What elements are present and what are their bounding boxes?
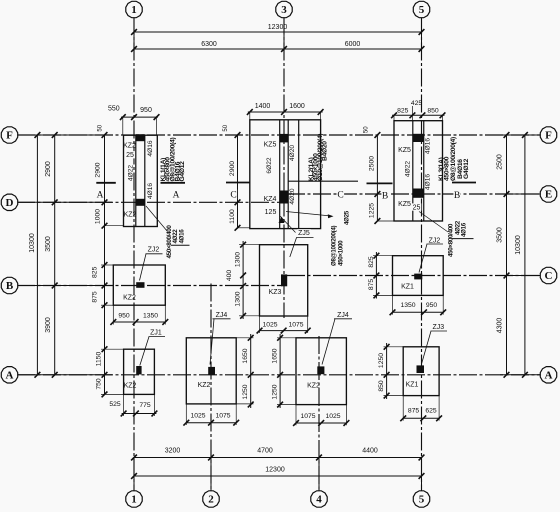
dimension 1650/1250 right of footing 2 — [250, 334, 252, 408]
grid line B (horizontal axis B) — [17, 285, 282, 287]
grid line E (horizontal axis E) — [287, 193, 541, 195]
section mark B right — [452, 182, 476, 184]
svg-text:2900: 2900 — [45, 161, 52, 177]
svg-text:1400: 1400 — [255, 103, 271, 110]
svg-text:KZ2: KZ2 — [124, 382, 137, 389]
dimension chain 2900/1000/825/875/1150/750 near grid 1 — [104, 135, 106, 394]
svg-text:1100: 1100 — [229, 209, 236, 224]
axis bubble C right — [540, 267, 556, 283]
axis bubble A right — [540, 367, 556, 383]
svg-text:550: 550 — [108, 105, 120, 112]
svg-text:950: 950 — [140, 107, 152, 114]
dimension 1250/850 left of footing A5 — [386, 343, 388, 399]
axis bubble E right — [540, 186, 556, 202]
footing note ZJ4 at 2 — [215, 311, 229, 318]
svg-text:F: F — [545, 130, 552, 142]
dimension 1025/1075 below footing 3 — [260, 330, 308, 332]
svg-text:ZJ2: ZJ2 — [429, 237, 441, 244]
svg-text:10300: 10300 — [29, 233, 36, 253]
column KZ2 in footing B x 1 (black) — [136, 282, 144, 288]
arrow down at KZ4 — [279, 217, 285, 224]
svg-text:2900: 2900 — [94, 162, 101, 177]
svg-text:50: 50 — [364, 126, 370, 133]
dimension 1300/400/1300 left of footing 3 — [242, 241, 244, 319]
svg-text:B: B — [6, 280, 14, 292]
svg-text:A: A — [97, 191, 104, 201]
svg-text:1600: 1600 — [289, 103, 305, 110]
svg-text:1150: 1150 — [95, 351, 102, 366]
svg-text:2500: 2500 — [369, 156, 376, 171]
svg-text:KZ2: KZ2 — [307, 383, 320, 390]
dimension 3200 / 4700 / 4400 bottom — [134, 457, 422, 459]
label 25 offset right — [412, 203, 422, 210]
dimension 950/1350 below footing B1 — [113, 321, 165, 323]
dimension 1025/1075 below footing 2 — [186, 422, 236, 424]
svg-text:950: 950 — [118, 313, 130, 320]
column KZ5 at F x 3 (black section) — [280, 134, 289, 143]
svg-text:50: 50 — [223, 124, 229, 131]
svg-text:525: 525 — [109, 401, 121, 408]
grid line 5 (vertical axis 5) — [421, 17, 423, 492]
svg-text:KZ1: KZ1 — [401, 284, 414, 291]
svg-text:4Ø16: 4Ø16 — [147, 140, 154, 156]
dimension 525/775 below footing A1 — [122, 413, 157, 415]
svg-text:6000: 6000 — [345, 41, 361, 48]
grid line 4 (vertical axis 4) — [318, 336, 320, 492]
svg-text:450×1000: 450×1000 — [337, 240, 344, 266]
svg-text:D: D — [6, 197, 14, 209]
grid line D (horizontal axis D) — [17, 201, 281, 203]
svg-text:25: 25 — [126, 152, 134, 159]
dimension chain 2900/1100 near wall 3 — [237, 135, 239, 229]
column KZ2 at F x 1 (black section) — [136, 134, 145, 141]
svg-text:3900: 3900 — [45, 317, 52, 333]
dimension chain 2500/3500/4300 right — [506, 135, 508, 375]
column KZ1 in footing A5 (black) — [417, 365, 425, 373]
svg-text:25: 25 — [413, 204, 421, 211]
dimension 1400/1600 above wall 3 — [248, 111, 323, 113]
footing outline ZJ5 at B/C x 3 — [260, 245, 308, 316]
column KZ3 in footing B/C x 3 (black) — [281, 274, 287, 286]
label 125 offset — [264, 208, 278, 215]
svg-text:1300: 1300 — [235, 291, 242, 306]
svg-text:750: 750 — [95, 378, 102, 390]
dimension 550/950 above wall 1 — [121, 116, 158, 118]
svg-text:4300: 4300 — [496, 318, 503, 334]
svg-text:1: 1 — [131, 4, 137, 16]
svg-text:KZ2: KZ2 — [123, 143, 136, 150]
svg-text:6300: 6300 — [201, 41, 217, 48]
axis bubble B left — [1, 277, 17, 293]
section mark A left — [96, 182, 116, 184]
svg-text:4Ø16: 4Ø16 — [179, 229, 186, 244]
dimension 12300 bottom overall — [134, 475, 422, 477]
svg-text:4Ø16: 4Ø16 — [425, 138, 432, 154]
svg-text:12300: 12300 — [268, 24, 288, 31]
svg-text:5: 5 — [419, 494, 425, 506]
footing outline ZJ1 at A x 1 — [124, 349, 155, 394]
dimension 1075/1025 below footing 4 — [296, 422, 346, 424]
svg-text:KZ2: KZ2 — [124, 211, 137, 218]
footing outline ZJ4 at A x 2 — [186, 338, 236, 404]
dimension 825/425/850 above wall 5 — [392, 114, 445, 116]
svg-text:C: C — [337, 191, 343, 201]
column KZ2 in footing A x 1 (black) — [136, 366, 141, 374]
svg-text:4Ø25: 4Ø25 — [344, 210, 351, 225]
axis bubble A left — [1, 367, 17, 383]
wall outline grid 1 — [124, 135, 158, 226]
svg-text:ZJ5: ZJ5 — [298, 230, 310, 237]
column KZ2 in footing 2 (black) — [208, 367, 215, 375]
section mark A right — [161, 182, 186, 184]
axis bubble 5 bottom — [413, 491, 429, 507]
column KZ4 at D/E x 3 (black section) — [280, 191, 289, 204]
svg-text:4Ø20: 4Ø20 — [289, 188, 296, 204]
grid line A (horizontal axis A) — [17, 374, 541, 376]
svg-text:KZ4: KZ4 — [264, 196, 277, 203]
svg-text:C: C — [545, 270, 553, 282]
label 25 offset — [125, 151, 135, 158]
svg-text:12300: 12300 — [265, 466, 285, 473]
footing outline at B x 1 — [113, 265, 165, 305]
svg-text:4Ø16: 4Ø16 — [461, 222, 468, 237]
axis bubble 1 bottom — [126, 491, 142, 507]
svg-text:4Ø16: 4Ø16 — [147, 183, 154, 199]
svg-text:2500: 2500 — [496, 154, 503, 170]
svg-text:ZJ4: ZJ4 — [337, 312, 349, 319]
footing note ZJ2 right — [428, 236, 442, 243]
wall outline grid 5 — [394, 121, 443, 221]
svg-text:10300: 10300 — [515, 235, 522, 255]
axis stem solid segments — [133, 17, 135, 50]
svg-text:825: 825 — [397, 107, 409, 114]
svg-text:875: 875 — [91, 291, 98, 303]
svg-text:5: 5 — [419, 4, 425, 16]
svg-text:G4Ø12: G4Ø12 — [179, 161, 186, 182]
svg-text:3200: 3200 — [165, 447, 181, 454]
svg-text:ZJ2: ZJ2 — [148, 246, 160, 253]
svg-text:3: 3 — [281, 4, 287, 16]
dimension chain 2900/3500/3900 left — [54, 135, 56, 375]
svg-text:1025: 1025 — [262, 321, 277, 328]
leader to beam note — [286, 212, 331, 217]
svg-text:1: 1 — [131, 494, 137, 506]
svg-text:1075: 1075 — [215, 412, 230, 419]
svg-text:KZ2: KZ2 — [198, 382, 211, 389]
svg-text:B4Ø20: B4Ø20 — [322, 141, 329, 161]
svg-text:ZJ1: ZJ1 — [150, 330, 162, 337]
axis bubble 3 top — [276, 1, 292, 17]
svg-text:G4Ø12: G4Ø12 — [463, 158, 470, 179]
column KZ5 at F x 5 (black section) — [413, 134, 424, 142]
svg-text:KZ5: KZ5 — [398, 201, 411, 208]
svg-text:1650: 1650 — [242, 348, 249, 363]
dimension 1350/950 below footing C5 — [393, 311, 444, 313]
svg-text:1075: 1075 — [288, 321, 303, 328]
axis bubble F right — [540, 127, 556, 143]
dimension 1150/750 left of footing A1 — [101, 348, 124, 350]
svg-text:ZJ4: ZJ4 — [216, 312, 228, 319]
svg-text:4Ø20: 4Ø20 — [289, 145, 296, 161]
svg-text:KZ2: KZ2 — [123, 294, 136, 301]
svg-text:825: 825 — [368, 256, 375, 268]
svg-text:625: 625 — [425, 408, 437, 415]
svg-text:ZJ3: ZJ3 — [432, 324, 444, 331]
dimension 825/875 left of footing B1 — [101, 264, 113, 266]
svg-text:1000: 1000 — [94, 209, 101, 224]
axis bubble 2 bottom — [203, 491, 219, 507]
svg-text:3500: 3500 — [45, 236, 52, 252]
column KZ5 at E x 5 (black section) — [413, 189, 424, 198]
footing outline ZJ2 at C x 5 — [393, 256, 444, 296]
column KZ1 in footing C5 (black) — [414, 274, 422, 280]
axis bubble 5 top — [413, 1, 429, 17]
section mark B left — [367, 182, 393, 184]
svg-text:A: A — [6, 370, 14, 382]
svg-text:6Ø22: 6Ø22 — [266, 157, 273, 173]
svg-text:A: A — [173, 191, 180, 201]
grid line F (horizontal axis F) — [17, 134, 541, 136]
svg-text:875: 875 — [408, 408, 420, 415]
svg-text:125: 125 — [265, 209, 277, 216]
svg-text:950: 950 — [426, 302, 438, 309]
svg-text:825: 825 — [91, 266, 98, 278]
dimension 6300 / 6000 top — [134, 48, 422, 50]
grid line 1 (vertical axis 1) — [133, 17, 135, 492]
footing outline ZJ3 at A x 5 — [403, 347, 439, 396]
wall outline grid 3 — [250, 120, 321, 229]
dimension chain 10300 left overall — [36, 135, 38, 375]
svg-text:1025: 1025 — [325, 413, 340, 420]
dimension 1650/1250 left of footing 4 — [279, 334, 281, 408]
column KZ2 at D x 1 (black section) — [136, 199, 145, 206]
axis bubble F left — [1, 127, 17, 143]
svg-text:A: A — [545, 370, 553, 382]
section mark C left — [226, 182, 250, 184]
grid line C (horizontal axis C) — [287, 275, 541, 277]
svg-text:1225: 1225 — [369, 203, 376, 218]
svg-text:F: F — [6, 130, 13, 142]
svg-text:KZ5: KZ5 — [398, 147, 411, 154]
svg-text:KZ5: KZ5 — [264, 142, 277, 149]
svg-text:1075: 1075 — [300, 413, 315, 420]
footing note ZJ5 — [297, 229, 311, 236]
svg-text:Ø8@100/200(4): Ø8@100/200(4) — [450, 137, 457, 181]
svg-text:50: 50 — [98, 124, 104, 131]
footing note ZJ3 — [432, 323, 446, 330]
footing note ZJ4 at 4 — [336, 311, 350, 318]
svg-text:4: 4 — [316, 494, 322, 506]
svg-text:B: B — [382, 192, 388, 202]
svg-text:875: 875 — [368, 279, 375, 291]
dimension 825/875 left of footing C5 — [375, 252, 377, 299]
leader from 25 to column note — [419, 212, 448, 233]
svg-text:400: 400 — [226, 270, 233, 282]
footing note ZJ1 — [149, 329, 163, 336]
svg-text:4700: 4700 — [257, 447, 273, 454]
section mark C right — [289, 180, 359, 182]
svg-text:1650: 1650 — [271, 348, 278, 363]
dimension chain 10300 right overall — [524, 135, 526, 375]
dimension chain 2500/1225 near wall 5 — [376, 135, 378, 221]
svg-text:E: E — [545, 189, 552, 201]
svg-text:KZ1: KZ1 — [406, 381, 419, 388]
svg-text:1350: 1350 — [400, 302, 415, 309]
dimension 12300 top overall — [134, 31, 422, 33]
svg-text:4Ø22: 4Ø22 — [405, 161, 412, 177]
svg-text:3500: 3500 — [496, 227, 503, 243]
svg-text:1250: 1250 — [378, 353, 385, 368]
dimension 875/625 below footing A5 — [403, 417, 439, 419]
svg-text:1250: 1250 — [242, 384, 249, 399]
svg-text:2900: 2900 — [229, 161, 236, 176]
grid line 2 (vertical axis 2) — [210, 284, 212, 492]
footing outline ZJ4 at A x 4 — [296, 338, 346, 405]
axis bubble D left — [1, 194, 17, 210]
svg-text:KZ3: KZ3 — [269, 289, 282, 296]
svg-text:1250: 1250 — [271, 384, 278, 399]
svg-text:775: 775 — [139, 402, 151, 409]
svg-text:1025: 1025 — [190, 412, 205, 419]
footing note ZJ2 left — [147, 245, 161, 252]
svg-text:4Ø22: 4Ø22 — [127, 165, 134, 181]
axis bubble 4 bottom — [311, 491, 327, 507]
svg-text:2: 2 — [208, 494, 214, 506]
column KZ2 in footing 4 (black) — [317, 366, 324, 374]
svg-text:1300: 1300 — [235, 252, 242, 267]
svg-text:850: 850 — [378, 380, 385, 392]
svg-text:850: 850 — [427, 107, 439, 114]
svg-text:B: B — [454, 191, 460, 201]
svg-text:C: C — [230, 191, 236, 201]
svg-text:1350: 1350 — [143, 313, 158, 320]
axis bubble 1 top — [126, 1, 142, 17]
grid line 3 (vertical axis 3) — [283, 17, 285, 319]
svg-text:4400: 4400 — [362, 447, 378, 454]
svg-text:4Ø16: 4Ø16 — [425, 174, 432, 190]
